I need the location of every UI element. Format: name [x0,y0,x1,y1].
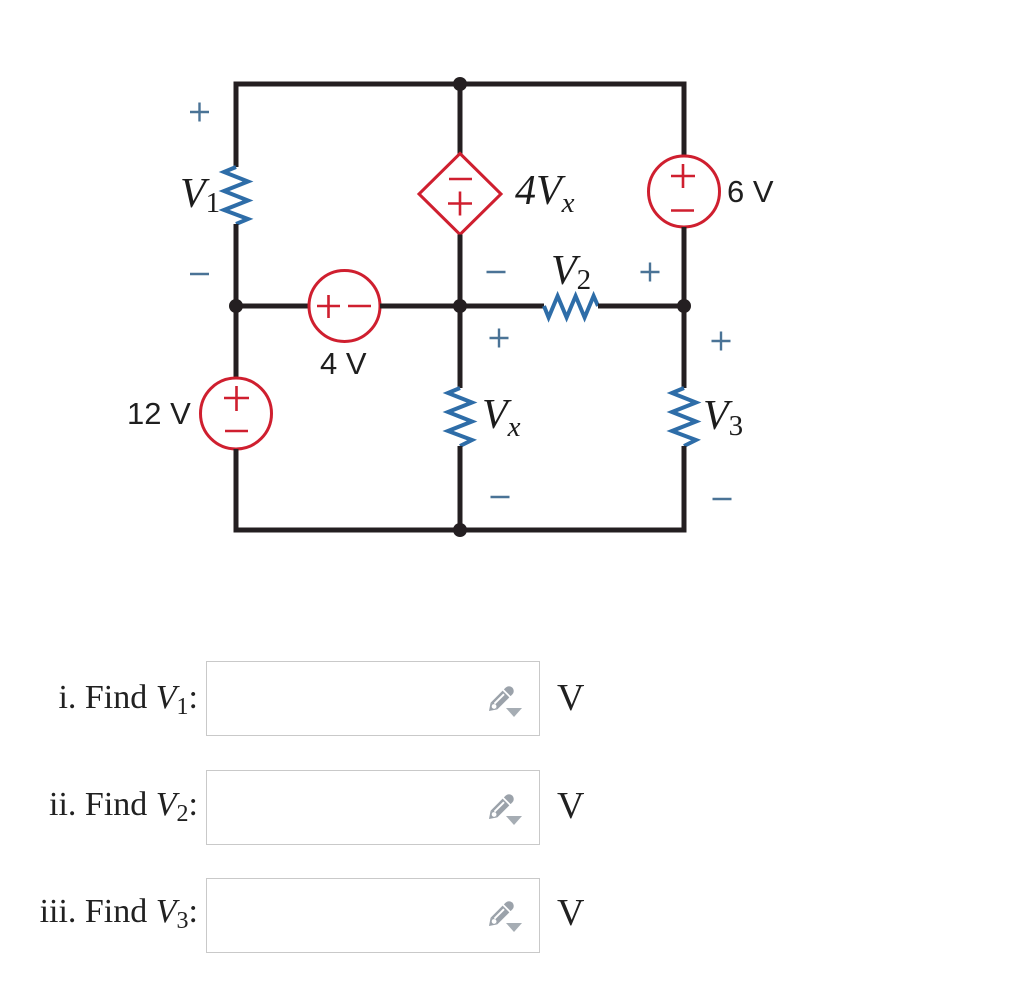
question row ii pencil icon [484,792,526,828]
source V12 12V circle [201,378,272,449]
wire left vertical upper segment [234,82,239,168]
question row i label [0,680,198,716]
resistor R-V1 [224,167,248,224]
svg-text:V3: V3 [703,393,743,442]
wire middle rail right segment [598,304,684,309]
node junction mid-left [229,299,243,313]
svg-text:6 V: 6 V [727,174,774,209]
node junction mid-center [453,299,467,313]
resistor R-V2 [544,296,598,318]
dependent source U-4Vx diamond [419,154,501,235]
question row i pencil icon [484,684,526,720]
node junction mid-right [677,299,691,313]
svg-text:4Vx: 4Vx [515,168,575,219]
source V4 plus sign [317,295,340,318]
wire middle vertical upper segment [458,82,463,155]
wire middle rail center segment [380,304,544,309]
question row iii unit V [557,894,584,932]
question row i unit V [557,679,584,717]
source V6 6V circle [649,156,720,227]
wire middle rail left segment [236,304,309,309]
wire left vertical lower segment [234,449,239,533]
svg-text:Vx: Vx [482,392,521,443]
node junction top [453,77,467,91]
dependent source U-4Vx minus sign [449,178,472,181]
wire right vertical middle segment [682,227,687,388]
svg-text:4 V: 4 V [320,346,367,381]
polarity plus above V3 [712,332,731,351]
question row ii input box [206,770,540,845]
polarity minus below V1 [190,273,209,275]
svg-text:V1: V1 [180,171,220,219]
polarity minus below Vx [491,496,510,498]
wire middle vertical lower segment [458,446,463,533]
wire top rail [234,82,687,87]
source V6 minus sign [671,209,694,212]
svg-text:V2: V2 [551,248,591,296]
wire bottom rail [234,528,687,533]
polarity minus left of V2 [487,271,506,273]
question row iii input box [206,878,540,953]
source V6 plus sign [671,164,695,188]
source V4 minus sign [348,305,371,308]
polarity plus above Vx [490,329,509,348]
question row i input box [206,661,540,736]
node junction bottom [453,523,467,537]
resistor R-Vx [448,388,472,446]
question row iii pencil icon [484,899,526,935]
question row ii label [0,787,198,823]
polarity minus below V3 [713,498,732,500]
source V12 plus sign [224,386,249,411]
source V12 minus sign [225,430,248,433]
source V4 4V circle [309,271,380,342]
wire middle vertical middle segment [458,235,463,389]
question row iii label [0,894,198,930]
wire left vertical middle segment [234,224,239,379]
polarity plus right of V2 [641,263,660,282]
question row ii unit V [557,787,584,825]
resistor R-V3 [672,388,696,446]
svg-text:12 V: 12 V [127,396,191,431]
polarity plus above V1 [190,103,209,122]
wire right vertical lower segment [682,446,687,533]
dependent source U-4Vx plus sign [448,192,472,216]
wire right vertical upper segment [682,82,687,157]
